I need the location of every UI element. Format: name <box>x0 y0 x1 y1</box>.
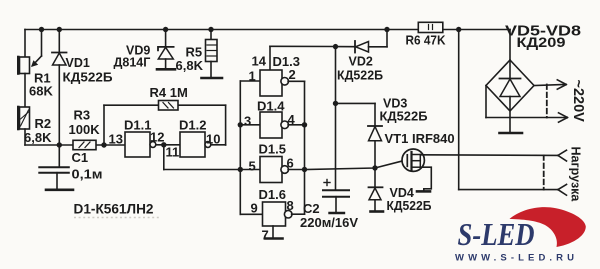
svg-text:R2: R2 <box>35 116 52 131</box>
svg-text:S-LED: S-LED <box>458 216 535 252</box>
svg-text:D1.3: D1.3 <box>273 54 300 69</box>
bridge rectifier VD5-VD8 <box>486 60 534 111</box>
svg-text:10: 10 <box>206 132 220 147</box>
diode VD2 <box>333 44 338 49</box>
wire R1 wiper <box>41 30 43 57</box>
wire supply vertical to C2 <box>335 47 337 190</box>
svg-text:D1.6: D1.6 <box>259 187 286 202</box>
svg-text:VD1: VD1 <box>66 56 90 70</box>
ground (VD4) <box>371 210 384 213</box>
svg-text:R3: R3 <box>74 108 91 123</box>
ground (C2) <box>330 212 345 214</box>
wire gate line <box>305 161 403 170</box>
wire VT1 drain to load <box>420 154 558 157</box>
svg-text:Нагрузка: Нагрузка <box>569 147 583 203</box>
svg-text:14: 14 <box>252 54 267 69</box>
transistor VT1 IRF840 <box>402 149 424 171</box>
op-amp D1.2 (inverter) <box>180 132 205 157</box>
node VD1/C1 <box>57 142 62 147</box>
op-amp D1.3 (inverter) <box>240 80 260 82</box>
svg-text:R4 1M: R4 1M <box>150 85 188 100</box>
capacitor C1 <box>58 145 60 167</box>
op-amp D1.5 (inverter) <box>240 169 260 171</box>
svg-text:C2: C2 <box>303 201 320 216</box>
resistor R6 <box>418 22 443 32</box>
op-amp D1.4 (inverter) <box>240 124 260 126</box>
op-amp D1.6 (inverter) <box>240 213 262 215</box>
svg-text:D1.2: D1.2 <box>179 118 206 133</box>
wire node 11 down to input bus <box>163 145 165 170</box>
wire node R2/R3 <box>25 144 125 146</box>
diode VD4 <box>374 168 376 187</box>
svg-text:6,8K: 6,8K <box>24 130 52 145</box>
svg-text:Д814Г: Д814Г <box>114 56 151 70</box>
svg-text:6,8K: 6,8K <box>176 58 204 73</box>
svg-text:D1.5: D1.5 <box>259 142 286 157</box>
svg-text:68K: 68K <box>29 84 53 99</box>
svg-text:9: 9 <box>251 201 258 216</box>
ground (R5) <box>202 77 223 80</box>
ground (VT1 source) <box>417 190 430 193</box>
svg-text:КД522Б: КД522Б <box>63 71 113 85</box>
diode VD1 <box>57 27 62 32</box>
load fork terminal bottom <box>558 184 567 195</box>
C2 plus sign <box>324 182 330 184</box>
wire bridge AC left to lower mains prong <box>485 86 487 118</box>
svg-text:R6 47K: R6 47K <box>406 34 446 48</box>
svg-text:VD2: VD2 <box>349 55 373 69</box>
svg-text:5: 5 <box>249 159 256 174</box>
op-amp D1.1 (inverter) <box>125 132 150 157</box>
resistor R4 loop wires <box>104 104 226 106</box>
svg-text:КД522Б: КД522Б <box>387 199 432 213</box>
node A (rail-wiper junction) <box>39 27 44 32</box>
ground (C1) <box>46 189 73 192</box>
svg-text:4: 4 <box>288 112 296 127</box>
wire load return vertical <box>456 27 461 32</box>
svg-text:11: 11 <box>166 145 180 160</box>
svg-text:2: 2 <box>289 67 296 82</box>
svg-text:7: 7 <box>262 228 269 243</box>
ground (pin 7) <box>266 237 283 240</box>
svg-text:КД522Б: КД522Б <box>380 110 428 124</box>
svg-text:C1: C1 <box>72 150 89 165</box>
wire rail drop to bridge <box>509 30 511 61</box>
svg-text:D1.4: D1.4 <box>257 99 285 114</box>
svg-text:VD4: VD4 <box>390 186 414 200</box>
capacitor C2 <box>323 189 349 191</box>
diode VD3 <box>368 125 382 127</box>
resistor R5 <box>208 27 213 32</box>
resistor R3 <box>73 140 96 149</box>
svg-text:100K: 100K <box>69 122 101 137</box>
wire pin 7 <box>272 226 274 238</box>
ground (VD9) <box>157 68 175 71</box>
resistor R4 <box>159 101 179 111</box>
svg-text:WWW.S-LED.RU: WWW.S-LED.RU <box>455 253 578 264</box>
wire left input bus <box>239 81 241 214</box>
S-LED logo swoosh <box>510 207 586 247</box>
wire D1.1 out to D1.2 in <box>156 144 180 146</box>
wire right output bus <box>304 81 306 214</box>
svg-text:VT1 IRF840: VT1 IRF840 <box>385 131 455 146</box>
svg-text:КД209: КД209 <box>517 34 566 50</box>
svg-text:6: 6 <box>287 156 294 171</box>
ground (bridge) <box>500 132 523 135</box>
svg-text:~220V: ~220V <box>570 80 586 123</box>
wire VT1 source to ground <box>420 167 431 190</box>
svg-text:D1.1: D1.1 <box>124 118 151 133</box>
svg-text:VD3: VD3 <box>383 97 407 111</box>
wire bridge AC right to upper mains prong <box>534 85 565 86</box>
svg-text:8: 8 <box>287 198 294 213</box>
load fork terminal top <box>558 150 567 161</box>
svg-text:1: 1 <box>249 69 256 84</box>
wire top supply rail <box>25 29 510 31</box>
wire load dashed link <box>543 155 545 189</box>
svg-text:3: 3 <box>244 114 251 129</box>
svg-text:13: 13 <box>109 132 123 147</box>
wire mains dashed link <box>546 85 548 118</box>
svg-text:D1-К561ЛН2: D1-К561ЛН2 <box>74 201 154 217</box>
wire pin14 supply <box>270 45 336 47</box>
svg-text:220м/16V: 220м/16V <box>300 215 358 230</box>
resistor R2 <box>20 107 30 129</box>
scan noise dotted line <box>74 217 160 219</box>
zener VD9 <box>163 27 168 32</box>
svg-text:0,1м: 0,1м <box>72 167 103 182</box>
wire branch to VD3 <box>336 102 376 104</box>
svg-text:КД522Б: КД522Б <box>337 69 383 83</box>
resistor R1 (variable) <box>24 30 26 58</box>
svg-text:12: 12 <box>150 130 164 145</box>
